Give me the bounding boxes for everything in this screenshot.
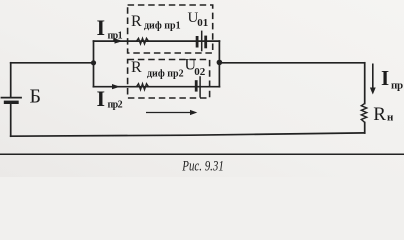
svg-text:Рис. 9.31: Рис. 9.31 [182,159,224,175]
svg-text:I: I [97,15,106,40]
svg-text:R: R [131,59,142,76]
svg-text:I: I [97,86,106,111]
svg-text:R: R [373,104,386,125]
svg-text:пр: пр [391,80,403,92]
svg-text:пр2: пр2 [108,100,123,111]
svg-text:R: R [131,13,142,30]
svg-text:пр1: пр1 [108,31,123,42]
svg-text:диф пр1: диф пр1 [144,20,181,31]
svg-text:02: 02 [194,66,206,78]
svg-text:I: I [381,66,389,90]
svg-text:диф пр2: диф пр2 [147,69,184,80]
svg-text:н: н [387,112,394,124]
svg-text:Б: Б [30,86,41,108]
svg-text:01: 01 [197,17,208,29]
